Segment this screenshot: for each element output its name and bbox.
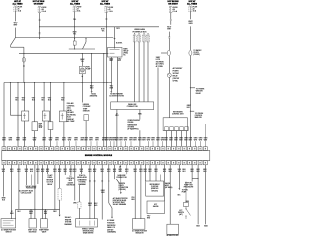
injector box 3 bbox=[59, 111, 66, 122]
main relay box bbox=[108, 48, 123, 58]
svg-text:YEL/: YEL/ bbox=[14, 22, 18, 24]
wire col3 lower bbox=[74, 27, 76, 41]
wire b192 lower bbox=[191, 181, 193, 183]
wire col5 lower bbox=[168, 56, 170, 74]
relay output wire B bbox=[117, 57, 119, 102]
wire x91.6 below bus bbox=[91, 83, 93, 92]
wire col5 to oval bbox=[168, 38, 170, 50]
ect switch bbox=[186, 209, 191, 216]
ecm pin row top bbox=[2, 147, 6, 151]
wire b81.4 bbox=[80, 165, 82, 174]
wire x63.9 bbox=[63, 83, 65, 112]
wire x18 bbox=[17, 83, 19, 147]
frame background bbox=[0, 0, 212, 237]
gauge box B2 bbox=[147, 201, 165, 214]
wire x158 down bbox=[157, 68, 159, 147]
wire UD3 down bbox=[143, 42, 145, 102]
junction bus 91.6 bbox=[91, 82, 92, 83]
inj3 out bbox=[63, 122, 65, 147]
wire b102.2 bbox=[101, 165, 103, 220]
fuel pump arrow connector bbox=[81, 76, 83, 78]
wire x205.5 upper bbox=[205, 124, 207, 147]
dashed connector b79.4 bbox=[78, 202, 81, 208]
ect sensor box bbox=[84, 115, 89, 121]
wire to ect switch bbox=[185, 182, 187, 203]
junction bus 50.5 bbox=[50, 82, 51, 83]
wire b26.4 bbox=[25, 165, 27, 185]
oval connector col5 bbox=[161, 52, 167, 54]
junction bus 24.4 bbox=[24, 82, 25, 83]
icu pin cells bbox=[165, 127, 168, 131]
stub wires band1 bbox=[120, 141, 122, 147]
wire b164.5 bbox=[164, 165, 166, 201]
wire col6 lower bbox=[189, 56, 191, 147]
rail1 arrow end bbox=[114, 38, 116, 40]
box M2 interlock bbox=[167, 224, 179, 234]
fuse F31 col1 bbox=[14, 6, 17, 12]
relay rail2 bbox=[19, 53, 108, 55]
wire col6 down bbox=[189, 12, 191, 19]
inj2 out bbox=[43, 121, 45, 147]
bottom bus left bbox=[16, 208, 60, 210]
bus drops bbox=[15, 209, 17, 218]
wire b70.9 bbox=[70, 165, 72, 175]
stub to injector box1 bbox=[9, 83, 11, 116]
injector box 2 bbox=[42, 111, 49, 121]
ecm body bbox=[2, 151, 210, 161]
ect out bbox=[85, 121, 87, 147]
jog to list bbox=[109, 203, 112, 208]
junction bus 63.9 bbox=[63, 82, 64, 83]
box L3 bbox=[41, 219, 48, 228]
wire right 205.5 bbox=[205, 165, 207, 224]
arrow text left bbox=[179, 188, 181, 190]
junction bus 18.0 bbox=[17, 82, 18, 83]
inj1 out bbox=[23, 121, 25, 147]
data link connector box bbox=[111, 102, 154, 110]
wire b59.6 bbox=[59, 165, 61, 189]
wire pump to ecm bbox=[81, 83, 83, 103]
box L4 tp sensor bbox=[76, 219, 98, 227]
wire b47.5 bbox=[47, 165, 49, 174]
map sensor box bbox=[32, 122, 38, 131]
relay switch B diagonal bbox=[83, 42, 87, 49]
radio connector col6 bbox=[189, 50, 192, 55]
svg-text:YEL: YEL bbox=[73, 19, 76, 21]
wire x114.5 to relay box bbox=[114, 40, 116, 48]
wire b170.2 bbox=[169, 165, 171, 224]
wire b145.3 bbox=[144, 165, 146, 181]
wire x82.3 to bus bbox=[81, 74, 83, 83]
junction col2 bus bbox=[39, 26, 40, 27]
svg-text:35: 35 bbox=[173, 9, 175, 11]
dashed connector b59.6 bbox=[58, 189, 61, 201]
wire b31.5 stub bbox=[31, 175, 33, 186]
wire b94.6 bbox=[94, 165, 96, 219]
tp sensor box bbox=[48, 122, 53, 130]
wire col2 down bbox=[39, 13, 41, 27]
ecm pin row bottom bbox=[2, 161, 6, 165]
branch 192 to 198 bbox=[192, 177, 198, 179]
wire col5 mid bbox=[170, 21, 172, 25]
wire b18.9 bbox=[18, 165, 20, 210]
svg-text:WHT/: WHT/ bbox=[188, 21, 193, 23]
bus end corner bbox=[59, 209, 61, 214]
box L2 shift solenoid bbox=[29, 219, 36, 228]
junction col6 branch1 bbox=[190, 87, 191, 88]
wire b192.1 bbox=[191, 165, 193, 182]
wire b54.9 bbox=[54, 165, 56, 210]
wire col4 down bbox=[105, 12, 107, 26]
relay output wire A bbox=[110, 57, 112, 83]
wire b65.2 bbox=[64, 165, 66, 175]
wire x111.3 below bus bbox=[110, 83, 112, 92]
svg-text:32: 32 bbox=[77, 9, 79, 11]
wire x34.5 bbox=[34, 83, 36, 122]
wire col2 lower bbox=[39, 27, 41, 38]
wire col6 mid bbox=[189, 26, 191, 50]
fuse F43 col6 bbox=[189, 6, 192, 12]
wire col1 to relay bbox=[14, 28, 16, 38]
relay switch A link bbox=[10, 45, 12, 47]
relay railA bbox=[69, 48, 95, 50]
wire c4 continuation bbox=[106, 27, 108, 147]
svg-text:BLU/: BLU/ bbox=[167, 26, 171, 28]
cluster stubs bbox=[149, 165, 151, 181]
box L1 at gear switch bbox=[1, 219, 16, 228]
junction bus 44.1 bbox=[44, 82, 45, 83]
wire col5 down bbox=[170, 13, 172, 19]
instrument cluster box bbox=[146, 181, 164, 196]
wire x23.4 oxygen heater bbox=[23, 54, 25, 83]
svg-text:36: 36 bbox=[42, 9, 44, 11]
wire x91.6 ac feed bbox=[91, 54, 93, 83]
junction bus 82.3 bbox=[82, 82, 83, 83]
wire x82.3 fuel pump feed bbox=[81, 54, 83, 67]
wire b42.6 bbox=[42, 165, 44, 219]
dlc out 139.9 bbox=[139, 110, 141, 120]
wire x103.8 down bbox=[103, 54, 105, 147]
icu out wires bbox=[166, 131, 168, 147]
relay switch A diagonal bbox=[11, 38, 16, 46]
fuse F35 col5 bbox=[169, 6, 172, 12]
wire b126.8 stub bbox=[126, 165, 128, 174]
wire b135.2 bbox=[134, 165, 136, 219]
wire b120.2 bbox=[119, 165, 121, 172]
wire b74.8 bbox=[74, 165, 76, 201]
junction col3 bus bbox=[74, 26, 75, 27]
wire b114.5 bbox=[114, 165, 116, 179]
wire x44.1 bbox=[43, 83, 45, 112]
wire UD1 down bbox=[134, 42, 136, 102]
map out bbox=[34, 131, 36, 147]
coil box col3 bbox=[73, 41, 76, 45]
tp out bbox=[50, 130, 52, 147]
wire x24.4 bbox=[23, 83, 25, 112]
wire b179.4 bbox=[178, 165, 180, 188]
integrated control unit box bbox=[163, 118, 187, 131]
bus left leg bbox=[3, 83, 5, 147]
bus engine compartment bbox=[4, 82, 111, 84]
wire b79.4 bbox=[78, 185, 80, 202]
injector box 1 bbox=[22, 111, 29, 121]
wire b198.1 bbox=[197, 165, 199, 224]
svg-text:CONNECTOR: CONNECTOR bbox=[127, 106, 139, 108]
bus drop x114.5 bbox=[114, 27, 116, 38]
fuse F36 col2 bbox=[38, 6, 41, 12]
svg-text:31: 31 bbox=[18, 9, 20, 11]
bus ignition feed bbox=[40, 26, 159, 28]
fuse F32 col3 bbox=[73, 6, 76, 12]
wire b140.9 bbox=[140, 165, 142, 219]
junction bus 34.5 bbox=[34, 82, 35, 83]
ticks col2 bbox=[39, 18, 41, 20]
svg-text:HOT IN RUN: HOT IN RUN bbox=[167, 1, 179, 3]
wire UD2 down bbox=[138, 42, 140, 102]
fuse F41 col4 bbox=[105, 6, 108, 12]
wire b3.4 bbox=[2, 165, 4, 197]
junction bus 10.4 bbox=[10, 82, 11, 83]
dlc out 116.9 bbox=[116, 110, 118, 147]
box M1 gear indicator bbox=[132, 219, 145, 230]
wire b34.9 bbox=[34, 165, 36, 219]
nav out bbox=[139, 130, 141, 147]
junction bus 103.8 bbox=[103, 82, 104, 83]
wire b11.7 bbox=[11, 165, 13, 219]
svg-text:ENGINE CONTROL MODULE: ENGINE CONTROL MODULE bbox=[85, 155, 113, 157]
wire b89.9 bbox=[89, 165, 91, 219]
accessory relay circle bbox=[167, 73, 171, 77]
wire col5 to icu bbox=[168, 77, 170, 118]
svg-text:43: 43 bbox=[193, 9, 195, 11]
wire col1 down bbox=[14, 12, 16, 22]
wire col3 to railA bbox=[74, 45, 76, 49]
wire b108.8 bbox=[108, 165, 110, 203]
wire x50.5 bbox=[50, 83, 52, 122]
relay rail1 bbox=[16, 37, 114, 39]
wire b37.9 bbox=[37, 165, 39, 184]
svg-text:41: 41 bbox=[109, 9, 111, 11]
jog dlc to service bbox=[116, 179, 119, 183]
fuel pump bbox=[80, 66, 86, 74]
connector oval x23.4 bbox=[22, 58, 25, 63]
wire col3 down bbox=[74, 12, 76, 27]
wire UD4 down bbox=[147, 42, 149, 102]
junction col6 branch2 bbox=[190, 111, 191, 112]
